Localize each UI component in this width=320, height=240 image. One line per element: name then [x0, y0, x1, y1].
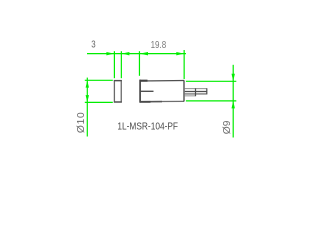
dia9 up arrow (outside below): [232, 101, 235, 108]
dim 19.8 right arrow (points right): [176, 52, 184, 55]
body left edge: [139, 80, 141, 103]
dimension 3 / 19.8 shared dim line: [87, 53, 186, 55]
dim 3 extension line left: [113, 51, 115, 78]
dia9 dim line: [232, 65, 234, 138]
body bottom edge right part: [162, 100, 184, 102]
dia10 dim line: [86, 78, 88, 137]
dia10 bottom extension line: [85, 101, 113, 103]
dim 19.8 extension line left: [138, 51, 140, 76]
pin mid tick: [195, 88, 197, 96]
flange top edge (darker): [114, 80, 122, 82]
dia10 top extension line: [85, 79, 113, 81]
flange bottom edge (darker): [114, 101, 122, 103]
dim 3 extension line right: [120, 51, 122, 78]
body bottom edge left part: [140, 101, 162, 103]
body top edge: [140, 80, 184, 82]
dia10 down arrow (inside): [86, 95, 89, 102]
dim 3 left arrow (outside, points right): [106, 52, 114, 55]
dim 3 right arrow (outside, points left): [122, 52, 130, 55]
dia9 bottom extension line: [186, 100, 236, 102]
body mid tick: [140, 90, 153, 92]
dia9 top extension line: [186, 80, 236, 82]
svg-text:19.8: 19.8: [151, 40, 167, 51]
dim 19.8 extension line right: [183, 50, 185, 79]
dim 19.8 left arrow (points left): [140, 52, 148, 55]
svg-text:3: 3: [91, 40, 96, 51]
body bottom-left thick segment: [140, 101, 150, 103]
pin bottom line: [185, 95, 196, 97]
dia10 up arrow (inside): [86, 81, 89, 88]
pin lower line: [185, 93, 207, 95]
pin top line: [185, 88, 207, 90]
svg-text:Ø9: Ø9: [222, 120, 233, 134]
svg-text:1L-MSR-104-PF: 1L-MSR-104-PF: [117, 122, 178, 133]
body right edge: [183, 80, 185, 101]
dia9 down arrow (outside above): [232, 74, 235, 81]
flange outline: [114, 81, 121, 102]
svg-text:Ø10: Ø10: [76, 112, 87, 133]
pin upper dark line: [185, 91, 207, 93]
pin end tick: [206, 88, 208, 94]
body top-left thick segment: [140, 80, 147, 82]
